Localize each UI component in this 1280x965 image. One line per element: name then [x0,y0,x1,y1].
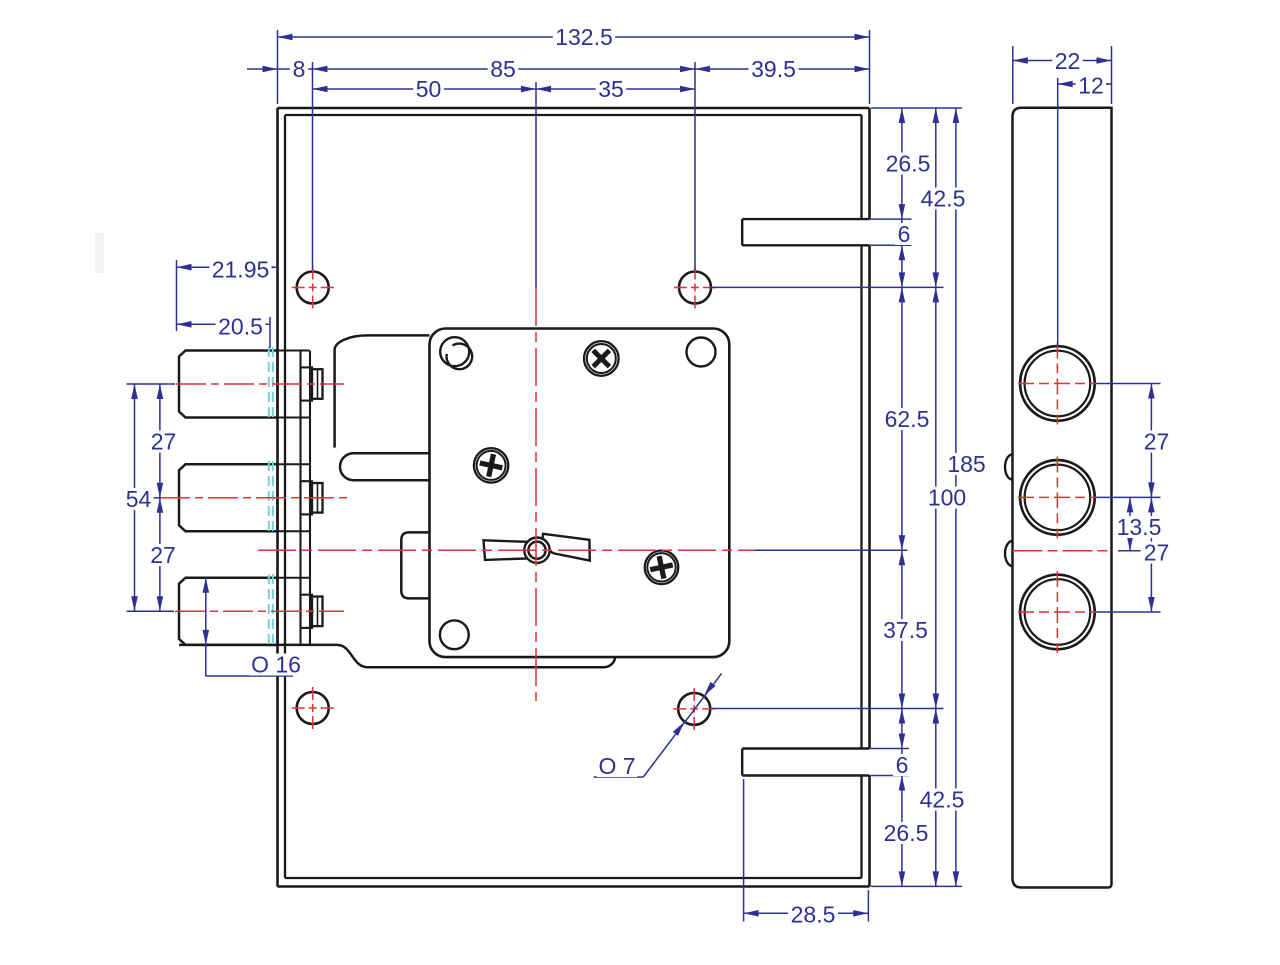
bolt end bump lower [1005,541,1012,566]
extension lines [277,30,279,104]
svg-text:27: 27 [1144,428,1170,454]
svg-text:100: 100 [928,484,966,510]
arrowheads [278,34,293,41]
hidden faceplate surface dashes [268,347,270,421]
svg-text:54: 54 [126,486,152,512]
main horizontal centerline [258,549,755,551]
svg-text:42.5: 42.5 [921,185,966,211]
svg-text:27: 27 [151,428,177,454]
hub inner circle [528,542,545,559]
svg-text:O 7: O 7 [598,753,635,779]
svg-text:21.95: 21.95 [212,256,270,282]
key hub [524,538,549,563]
plate hole bottom-left [440,620,469,649]
svg-text:12: 12 [1078,72,1104,98]
mechanism plate top-left [335,335,430,447]
svg-text:26.5: 26.5 [886,150,931,176]
svg-text:8: 8 [293,56,306,82]
strip screws side view [301,367,313,400]
dimension lines [278,36,870,38]
lock case outer outline [278,107,870,110]
thumb-turn boss tab [401,532,429,598]
svg-text:85: 85 [490,56,516,82]
inner guide strip [299,351,301,645]
centerline bolt row 3 [175,610,344,612]
svg-text:26.5: 26.5 [884,820,929,846]
bolt end bump upper [1005,454,1012,479]
phillips screw top [584,341,619,376]
svg-text:O 16: O 16 [251,651,301,677]
dimension texts [553,26,615,48]
phillips screw right [645,551,679,585]
svg-text:62.5: 62.5 [885,406,930,432]
lock case inner outline [285,114,862,116]
svg-text:27: 27 [150,542,176,568]
svg-text:42.5: 42.5 [920,786,965,812]
svg-text:6: 6 [896,752,909,778]
bolt edge lines through faceplate [279,350,310,352]
hub right wing [543,534,590,561]
svg-text:132.5: 132.5 [555,24,613,50]
locking bolts [179,351,278,418]
O7 leader line [643,673,721,777]
side view centerlines [1013,550,1112,552]
phillips screw left [474,448,508,482]
top latch slot [742,218,869,220]
plate hole top-right [687,338,716,367]
mounting holes front view [297,272,329,304]
mechanism plate bottom with step [179,645,615,667]
main vertical centerline [535,288,537,701]
svg-text:13.5: 13.5 [1117,514,1162,540]
svg-text:22: 22 [1055,48,1081,74]
svg-text:35: 35 [598,76,624,102]
hole crosshairs [292,287,334,289]
svg-text:185: 185 [947,451,985,477]
faceplate side view [1013,108,1112,888]
svg-text:6: 6 [898,221,911,247]
cylinder escutcheon plate [430,329,730,658]
svg-text:50: 50 [416,76,442,102]
centerline bolt row 1 [176,383,344,385]
bolt link bar [340,453,430,480]
centerline bolt row 2 [160,497,350,499]
hub left wing [484,540,528,560]
svg-text:27: 27 [1144,539,1170,565]
svg-text:37.5: 37.5 [883,617,928,643]
cylinder bosses side view [1020,346,1095,421]
bottom latch slot [742,747,869,749]
svg-text:39.5: 39.5 [751,56,796,82]
svg-text:20.5: 20.5 [218,313,263,339]
plate hole top-left with pin [440,337,469,366]
svg-text:28.5: 28.5 [791,901,836,927]
